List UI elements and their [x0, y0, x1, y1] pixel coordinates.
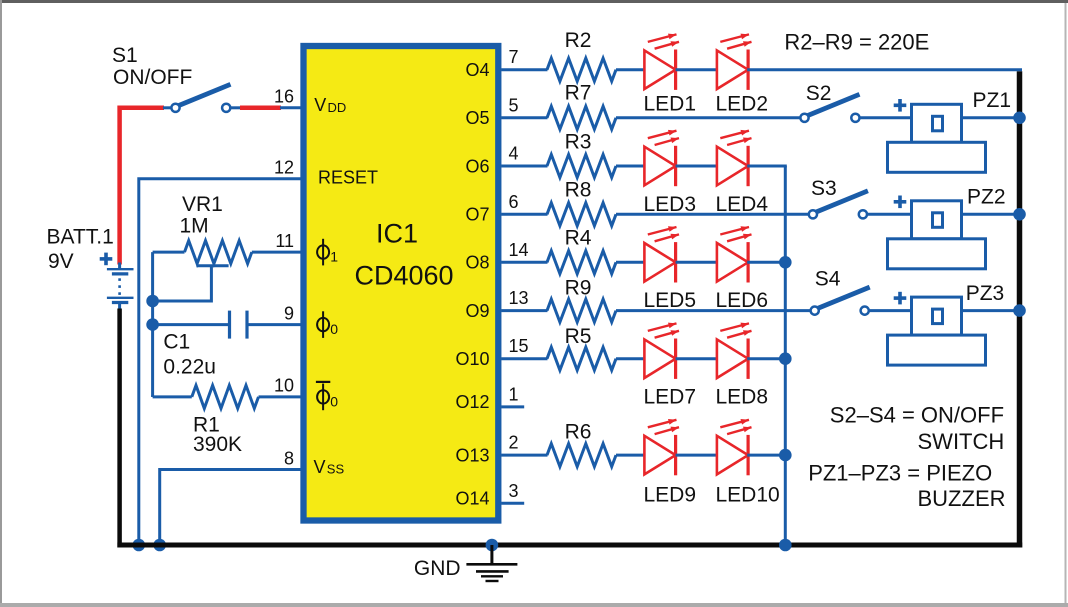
- svg-text:0: 0: [330, 321, 338, 337]
- junction PZ2 on right return bus: [1013, 208, 1026, 221]
- IC1 pin phi1 label: [317, 239, 338, 266]
- svg-text:8: 8: [284, 448, 294, 468]
- svg-text:2: 2: [509, 433, 519, 453]
- wire R7 to S2: [616, 116, 801, 119]
- junction PZ1 on right return bus: [1013, 112, 1026, 125]
- wire R8 to S3: [616, 213, 809, 216]
- svg-text:LED9: LED9: [644, 484, 697, 507]
- svg-text:LED3: LED3: [644, 193, 697, 216]
- LED LED4: [717, 130, 752, 186]
- LED LED10: [717, 419, 752, 475]
- switch S4: [811, 287, 870, 315]
- svg-text:LED8: LED8: [716, 386, 769, 409]
- svg-text:BUZZER: BUZZER: [918, 486, 1006, 511]
- svg-text:15: 15: [509, 336, 529, 356]
- svg-text:9V: 9V: [48, 250, 74, 273]
- wire R2 to LED1: [616, 68, 644, 71]
- LED labels LED3 LED4: [644, 193, 769, 216]
- svg-text:R2: R2: [565, 29, 592, 52]
- junction LED return: [779, 352, 792, 365]
- wire LED4 to LED return vertical: [747, 165, 787, 168]
- IC IC1 CD4060 body: [304, 46, 499, 521]
- wire O10 to R5: [501, 357, 547, 360]
- svg-text:1: 1: [509, 384, 519, 404]
- wire VSS pin 8: [160, 470, 301, 546]
- svg-text:LED4: LED4: [716, 193, 769, 216]
- svg-text:VR1: VR1: [182, 193, 223, 216]
- svg-text:S2: S2: [806, 82, 832, 105]
- potentiometer VR1 labels: [180, 193, 223, 238]
- resistor R6: [547, 444, 616, 467]
- wire S1 lead left: [163, 106, 172, 109]
- LED LED5: [644, 226, 679, 282]
- wire S3 to PZ2: [867, 213, 912, 216]
- buzzer PZ3: [888, 297, 986, 365]
- wire S1 to VDD pin 16: [230, 106, 300, 109]
- wire R5 to LED7: [616, 357, 644, 360]
- wire PZ1 to right return bus: [962, 116, 1020, 119]
- svg-text:CD4060: CD4060: [354, 261, 453, 291]
- svg-text:14: 14: [509, 240, 529, 260]
- wire O7 to R8: [501, 213, 547, 216]
- wire O12 stub: [501, 405, 524, 408]
- buzzer PZ2 plus sign: [894, 196, 907, 209]
- svg-text:S4: S4: [815, 268, 841, 291]
- svg-text:PZ3: PZ3: [966, 282, 1005, 305]
- svg-text:PZ1–PZ3 = PIEZO: PZ1–PZ3 = PIEZO: [808, 461, 992, 486]
- LED labels LED5 LED6: [644, 289, 769, 312]
- wire S2 to PZ1: [859, 116, 911, 119]
- svg-text:GND: GND: [414, 557, 461, 580]
- junction LED return: [779, 449, 792, 462]
- resistor R8: [547, 203, 616, 226]
- wire LED10 to LED return vertical: [747, 454, 787, 457]
- junction on ground bus (RESET line): [133, 539, 146, 552]
- wire LED2 to right return bus: [747, 68, 1022, 71]
- junction PZ3 on right return bus: [1013, 304, 1026, 317]
- svg-text:1: 1: [330, 249, 338, 265]
- legend PZ1-PZ3 = PIEZO BUZZER: [808, 461, 1005, 512]
- svg-text:5: 5: [509, 95, 519, 115]
- svg-text:11: 11: [275, 231, 294, 251]
- LED labels LED7 LED8: [644, 386, 769, 409]
- IC1 pin VSS label: [314, 457, 345, 477]
- wire PZ2 to right return bus: [962, 213, 1020, 216]
- svg-text:R8: R8: [565, 179, 592, 202]
- svg-text:6: 6: [509, 192, 519, 212]
- LED labels LED1 LED2: [644, 93, 769, 116]
- wire O5 to R7: [501, 116, 547, 119]
- svg-text:LED10: LED10: [716, 484, 780, 507]
- wire LED7 to LED8: [676, 357, 717, 360]
- wire LED return vertical: [784, 166, 787, 545]
- wire O8 to R4: [501, 261, 547, 264]
- resistor R7: [547, 106, 616, 129]
- svg-text:IC1: IC1: [376, 219, 418, 249]
- buzzer PZ1: [888, 104, 986, 172]
- svg-text:V: V: [314, 95, 326, 115]
- svg-text:O8: O8: [465, 253, 489, 273]
- wire LED8 to LED return vertical: [747, 357, 787, 360]
- switch S2: [800, 94, 859, 122]
- svg-text:390K: 390K: [193, 433, 242, 456]
- wire R9 to S4: [616, 309, 811, 312]
- svg-text:PZ1: PZ1: [973, 89, 1012, 112]
- switch S3: [809, 191, 868, 219]
- LED labels LED9 LED10: [644, 484, 780, 507]
- junction LED return on ground bus: [779, 539, 792, 552]
- wire LED5 to LED6: [676, 261, 717, 264]
- battery BATT.1 label: [47, 225, 114, 273]
- IC1 pin RESET label: [318, 168, 378, 188]
- svg-text:LED7: LED7: [644, 386, 697, 409]
- wire S4 to PZ3: [869, 309, 912, 312]
- svg-text:4: 4: [509, 144, 519, 164]
- resistor R3: [547, 155, 616, 178]
- LED LED2: [717, 34, 752, 90]
- LED LED1: [644, 34, 679, 90]
- buzzer PZ2: [888, 201, 986, 269]
- IC1 pin phi0-bar label: [316, 382, 338, 410]
- resistor R4: [547, 251, 616, 274]
- svg-text:O12: O12: [455, 392, 489, 412]
- svg-text:SWITCH: SWITCH: [918, 429, 1005, 454]
- wire R6 to LED9: [616, 454, 644, 457]
- wire PZ3 to right return bus: [962, 309, 1020, 312]
- svg-text:7: 7: [509, 47, 519, 67]
- svg-text:O4: O4: [465, 60, 489, 80]
- potentiometer VR1: [153, 241, 301, 301]
- svg-text:R2–R9 = 220E: R2–R9 = 220E: [784, 29, 929, 54]
- LED LED6: [717, 226, 752, 282]
- svg-text:LED5: LED5: [644, 289, 697, 312]
- junction ground bus GND: [486, 539, 499, 552]
- resistor R5: [547, 347, 616, 370]
- battery BATT.1 cells: [107, 263, 134, 310]
- wire LED3 to LED4: [676, 165, 717, 168]
- svg-text:RESET: RESET: [318, 168, 378, 188]
- buzzer PZ3 plus sign: [894, 292, 907, 305]
- svg-text:O13: O13: [455, 445, 489, 465]
- junction LED return: [779, 256, 792, 269]
- wire LED9 to LED10: [676, 454, 717, 457]
- wire O6 to R3: [501, 165, 547, 168]
- junction on ground bus (VSS line): [153, 539, 166, 552]
- resistor R2: [547, 58, 616, 81]
- resistor R1 labels: [193, 413, 242, 456]
- buzzer PZ1 plus sign: [894, 99, 907, 112]
- resistor R1: [153, 385, 301, 408]
- svg-text:0: 0: [330, 393, 338, 409]
- wire O13 to R6: [501, 454, 547, 457]
- svg-text:0.22u: 0.22u: [163, 356, 216, 379]
- svg-text:O5: O5: [465, 108, 489, 128]
- wire R4 to LED5: [616, 261, 644, 264]
- svg-text:O6: O6: [465, 156, 489, 176]
- svg-text:S1: S1: [112, 44, 138, 67]
- wire R3 to LED3: [616, 165, 644, 168]
- svg-text:PZ2: PZ2: [967, 185, 1006, 208]
- svg-text:S2–S4 = ON/OFF: S2–S4 = ON/OFF: [830, 403, 1004, 428]
- LED LED8: [717, 323, 752, 379]
- svg-text:O7: O7: [465, 205, 489, 225]
- svg-text:C1: C1: [163, 331, 190, 354]
- IC1 pin phi0 label: [317, 311, 338, 338]
- svg-text:O9: O9: [465, 301, 489, 321]
- svg-text:O14: O14: [455, 488, 489, 508]
- svg-text:12: 12: [274, 158, 294, 178]
- battery BATT.1 plus sign: [100, 253, 113, 266]
- legend S2-S4 = ON/OFF SWITCH: [830, 403, 1004, 455]
- svg-text:LED6: LED6: [716, 289, 769, 312]
- wire O4 to R2: [501, 68, 547, 71]
- svg-text:9: 9: [284, 303, 294, 323]
- svg-text:V: V: [314, 457, 326, 477]
- LED LED3: [644, 130, 679, 186]
- svg-text:BATT.1: BATT.1: [47, 225, 114, 248]
- svg-text:R4: R4: [565, 227, 592, 250]
- wire O9 to R9: [501, 309, 547, 312]
- svg-text:10: 10: [274, 376, 294, 396]
- junction node C1: [146, 318, 159, 331]
- capacitor C1 labels: [163, 331, 216, 379]
- svg-text:LED2: LED2: [716, 93, 769, 116]
- capacitor C1: [153, 311, 301, 339]
- junction node wiper: [146, 295, 159, 308]
- svg-text:R3: R3: [565, 131, 592, 154]
- IC1 pin VDD label: [314, 95, 346, 115]
- wire ground bus: [117, 543, 1022, 548]
- wire O14 stub: [501, 502, 524, 505]
- wire LED1 to LED2: [676, 68, 717, 71]
- svg-text:ON/OFF: ON/OFF: [113, 66, 192, 89]
- wire RESET pin 12: [139, 179, 301, 545]
- wire black right return bus: [1017, 71, 1023, 547]
- switch S1: [171, 84, 230, 112]
- resistor R9: [547, 299, 616, 322]
- svg-text:LED1: LED1: [644, 93, 697, 116]
- svg-text:SS: SS: [327, 462, 345, 477]
- svg-text:DD: DD: [328, 100, 347, 115]
- LED LED9: [644, 419, 679, 475]
- wire node vertical (VR1/C1/R1 common): [151, 252, 154, 397]
- svg-text:3: 3: [509, 481, 519, 501]
- svg-text:R7: R7: [565, 82, 592, 105]
- svg-text:O10: O10: [455, 349, 489, 369]
- svg-text:1M: 1M: [180, 215, 209, 238]
- svg-text:S3: S3: [811, 177, 837, 200]
- ground symbol: [466, 545, 517, 581]
- switch S1 label: [112, 44, 192, 89]
- wire black battery- down: [117, 309, 122, 548]
- svg-text:16: 16: [274, 87, 294, 107]
- LED LED7: [644, 323, 679, 379]
- wire red battery+ to S1: [120, 108, 164, 265]
- svg-text:13: 13: [509, 288, 529, 308]
- wire LED6 to LED return vertical: [747, 261, 787, 264]
